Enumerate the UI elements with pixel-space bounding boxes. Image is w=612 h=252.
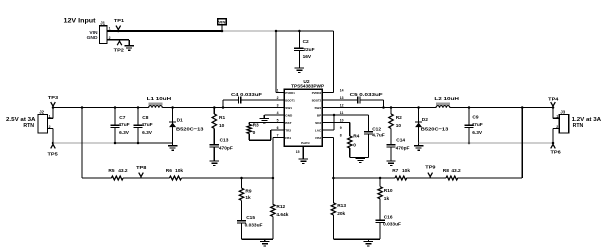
svg-text:J2: J2	[39, 110, 44, 115]
svg-text:R12: R12	[276, 204, 285, 210]
svg-text:R7: R7	[392, 168, 398, 174]
svg-text:C8: C8	[142, 115, 148, 121]
svg-text:9: 9	[340, 126, 342, 130]
svg-text:TP5: TP5	[48, 152, 59, 157]
svg-text:FB2: FB2	[315, 136, 321, 140]
svg-text:C7: C7	[119, 115, 125, 121]
svg-text:47uF: 47uF	[472, 122, 483, 128]
svg-text:4.7uF: 4.7uF	[372, 133, 385, 139]
svg-text:2: 2	[277, 96, 279, 100]
svg-text:14: 14	[340, 88, 344, 92]
svg-text:43.2: 43.2	[118, 168, 128, 174]
svg-text:20k: 20k	[337, 211, 345, 217]
svg-text:12: 12	[340, 103, 344, 107]
svg-text:C13: C13	[220, 138, 229, 144]
svg-text:J1: J1	[100, 21, 105, 26]
svg-text:B520C−13: B520C−13	[176, 126, 204, 132]
svg-text:C15: C15	[246, 215, 255, 221]
svg-text:15: 15	[296, 150, 300, 154]
svg-text:LAC: LAC	[315, 128, 322, 132]
svg-text:6.3V: 6.3V	[142, 130, 153, 136]
svg-text:1k: 1k	[245, 195, 251, 201]
svg-text:R10: R10	[384, 188, 393, 194]
svg-text:B520C−13: B520C−13	[421, 126, 449, 132]
svg-text:12V Input: 12V Input	[64, 18, 97, 25]
svg-text:SW2: SW2	[314, 106, 321, 110]
svg-text:TP9: TP9	[425, 165, 436, 170]
svg-text:4.64k: 4.64k	[276, 212, 288, 218]
svg-text:C4 0.033uF: C4 0.033uF	[231, 92, 262, 98]
svg-text:6: 6	[277, 126, 279, 130]
svg-text:D2: D2	[422, 117, 428, 123]
svg-text:C5 0.033uF: C5 0.033uF	[350, 92, 383, 98]
svg-text:R8: R8	[443, 168, 449, 174]
svg-text:11: 11	[340, 111, 344, 115]
svg-text:22uF: 22uF	[303, 47, 314, 53]
svg-text:VIN: VIN	[89, 30, 98, 36]
svg-text:2.5V at 3A: 2.5V at 3A	[6, 117, 36, 123]
svg-text:470pF: 470pF	[396, 145, 410, 151]
svg-text:1.2V at 3A: 1.2V at 3A	[572, 117, 602, 123]
svg-text:10: 10	[396, 123, 402, 129]
svg-text:GND: GND	[285, 113, 293, 117]
svg-text:PVDD1: PVDD1	[285, 91, 295, 95]
svg-text:4: 4	[277, 111, 279, 115]
svg-text:TP6: TP6	[551, 150, 562, 155]
svg-text:47uF: 47uF	[141, 122, 152, 128]
svg-text:1: 1	[109, 27, 111, 31]
svg-text:GND: GND	[87, 35, 98, 41]
svg-text:0: 0	[353, 142, 356, 148]
svg-text:R1: R1	[219, 115, 225, 121]
svg-text:R4: R4	[353, 134, 359, 140]
svg-text:R13: R13	[337, 203, 346, 209]
svg-text:2: 2	[556, 125, 558, 129]
svg-text:RTN: RTN	[23, 123, 34, 129]
svg-text:47uF: 47uF	[118, 122, 129, 128]
svg-text:3: 3	[277, 103, 279, 107]
svg-text:6.3V: 6.3V	[472, 130, 483, 136]
svg-text:1: 1	[556, 115, 558, 119]
svg-text:TPS54383PWP: TPS54383PWP	[291, 83, 325, 89]
svg-text:RTN: RTN	[573, 123, 584, 129]
svg-text:D1: D1	[177, 117, 183, 123]
svg-text:0.033uF: 0.033uF	[383, 222, 401, 228]
svg-text:L2 10uH: L2 10uH	[434, 96, 459, 102]
svg-text:C16: C16	[384, 214, 393, 220]
svg-text:10: 10	[340, 118, 344, 122]
svg-text:TP3: TP3	[48, 95, 59, 100]
svg-text:13: 13	[340, 96, 344, 100]
svg-text:10k: 10k	[402, 168, 410, 174]
svg-text:1: 1	[49, 115, 51, 119]
svg-text:16V: 16V	[303, 54, 312, 60]
svg-text:0.033uF: 0.033uF	[245, 222, 263, 228]
svg-text:BP: BP	[317, 113, 321, 117]
svg-text:C2: C2	[303, 39, 309, 45]
svg-text:2: 2	[49, 125, 51, 129]
svg-text:BOOT2: BOOT2	[312, 98, 322, 102]
svg-text:TP2: TP2	[114, 48, 125, 53]
svg-text:10: 10	[219, 123, 225, 129]
svg-text:TP1: TP1	[114, 18, 125, 23]
svg-text:BOOT1: BOOT1	[285, 98, 295, 102]
svg-text:7: 7	[277, 133, 279, 137]
svg-text:TP4: TP4	[548, 96, 559, 101]
svg-text:43.2: 43.2	[451, 168, 461, 174]
svg-text:SW1: SW1	[285, 106, 292, 110]
svg-text:6.3V: 6.3V	[119, 130, 130, 136]
svg-text:TP8: TP8	[136, 165, 147, 170]
svg-text:C9: C9	[472, 115, 478, 121]
svg-text:PwPd: PwPd	[301, 141, 310, 145]
svg-text:8: 8	[340, 133, 342, 137]
svg-text:FB1: FB1	[285, 136, 291, 140]
svg-text:L1 10uH: L1 10uH	[147, 96, 172, 102]
svg-text:SD2: SD2	[315, 121, 321, 125]
svg-text:PVDD2: PVDD2	[312, 91, 322, 95]
svg-text:1k: 1k	[384, 196, 390, 202]
svg-text:BST: BST	[285, 121, 291, 125]
svg-text:R3: R3	[253, 123, 259, 129]
svg-text:TR2: TR2	[285, 128, 291, 132]
svg-text:10k: 10k	[175, 168, 183, 174]
svg-text:J3: J3	[560, 110, 565, 115]
svg-text:R9: R9	[245, 188, 251, 194]
svg-text:5: 5	[277, 118, 279, 122]
svg-text:R5: R5	[108, 168, 114, 174]
svg-text:R6: R6	[166, 168, 172, 174]
svg-text:VIN: VIN	[218, 21, 225, 25]
svg-text:1: 1	[277, 88, 279, 92]
svg-text:C12: C12	[372, 126, 381, 132]
svg-text:R2: R2	[396, 115, 402, 121]
svg-text:C14: C14	[396, 138, 405, 144]
svg-text:470pF: 470pF	[219, 145, 233, 151]
svg-text:0: 0	[253, 130, 256, 136]
